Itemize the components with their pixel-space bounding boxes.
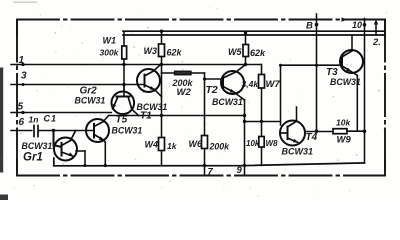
transistor T2 — [221, 71, 244, 94]
svg-text:W3: W3 — [144, 46, 158, 56]
wire supply rail upper — [123, 30, 384, 32]
svg-text:1k: 1k — [167, 141, 178, 151]
svg-text:5: 5 — [18, 102, 24, 113]
frame (dash-dot IC boundary) — [17, 20, 385, 176]
svg-text:BCW31: BCW31 — [75, 96, 106, 106]
svg-text:10k: 10k — [246, 139, 260, 148]
frame top arrow — [342, 17, 348, 21]
wire T3 emitter drop — [351, 72, 357, 132]
resistor W9 (horizontal) — [333, 129, 347, 134]
wire T5 emitter to ground rail — [104, 140, 107, 167]
wire W2 right lead — [191, 72, 205, 74]
wire feedback node horizontal (to T4 base) — [245, 121, 281, 123]
transistor Gr2 — [112, 85, 135, 115]
svg-text:10k: 10k — [336, 118, 351, 128]
svg-text:200k: 200k — [209, 142, 231, 152]
wire node B column — [315, 14, 319, 133]
resistor W2 (horizontal, dark) — [175, 71, 192, 75]
wire T2 emitter column (pin 9) — [235, 93, 247, 176]
svg-text:T1: T1 — [140, 111, 152, 122]
pin 2 supply stub with arrow — [374, 19, 378, 35]
wire Gr1 emitter to ground rail — [76, 151, 87, 167]
wire node 1 (pin1 line) — [11, 63, 262, 66]
wire Gr2 collector to mid node — [132, 109, 139, 115]
wire W2 left lead — [162, 72, 175, 74]
wire mid node horizontal — [109, 114, 247, 117]
svg-text:300k: 300k — [100, 48, 120, 58]
resistor W4 — [159, 138, 165, 151]
transistor T3 — [340, 50, 363, 73]
wire T5 collector to mid node — [103, 116, 108, 122]
svg-text:T4: T4 — [306, 132, 318, 143]
wire T3 base riser — [279, 64, 282, 125]
wire supply rail lower — [123, 34, 384, 36]
svg-text:BCW31I: BCW31I — [22, 141, 56, 151]
capacitor C1 — [34, 126, 38, 137]
resistor W5 — [243, 45, 249, 57]
wire node 5 (pin5 line to Gr2 emitter) — [11, 111, 111, 114]
svg-text:10: 10 — [352, 20, 362, 30]
svg-text:3: 3 — [21, 71, 27, 82]
svg-text:W7: W7 — [266, 79, 281, 90]
wire ground rail (pins 7,9) — [54, 158, 365, 166]
transistor T1 — [137, 69, 160, 92]
wire T1 collector link — [154, 65, 161, 71]
svg-text:W8: W8 — [266, 139, 279, 148]
wire node 3 (pin3 line to T1 base) — [11, 83, 145, 86]
wire T3 collector to rail — [351, 35, 353, 51]
svg-text:62k: 62k — [167, 48, 183, 58]
svg-text:2.: 2. — [372, 37, 381, 48]
svg-text:1n: 1n — [29, 115, 39, 125]
svg-text:BCW31: BCW31 — [212, 97, 243, 107]
wire W6 column (W2 to ground, pin 7) — [203, 73, 206, 175]
resistor W3 — [159, 44, 165, 57]
svg-text:62k: 62k — [250, 48, 266, 58]
svg-text:B: B — [306, 21, 313, 32]
svg-text:6: 6 — [19, 117, 25, 128]
svg-text:Gr1: Gr1 — [23, 152, 43, 164]
svg-text:3,4k: 3,4k — [242, 79, 260, 89]
wire T4 collector stub — [296, 107, 298, 121]
wire W1 column (rail to Gr2 collector) — [122, 31, 125, 91]
svg-text:BCW31: BCW31 — [112, 126, 143, 136]
resistor W1 — [122, 46, 127, 59]
wire T3 base horizontal — [281, 64, 343, 67]
svg-text:T2: T2 — [206, 84, 218, 96]
transistor Gr1 — [54, 131, 78, 161]
svg-text:W4: W4 — [145, 140, 159, 150]
svg-text:W9: W9 — [337, 135, 352, 146]
transistor T5 — [86, 119, 109, 142]
resistor W7 — [259, 75, 265, 89]
wire W5 column — [244, 31, 247, 66]
svg-text:7: 7 — [208, 167, 214, 178]
svg-text:W2: W2 — [177, 87, 192, 98]
wire C1 to T5 base — [38, 129, 94, 132]
svg-text:9: 9 — [237, 165, 243, 176]
wire T1 emitter link — [155, 90, 162, 97]
wire node 6 (pin6 line to C1) — [11, 130, 32, 132]
wire W9 right lead — [347, 129, 366, 133]
frame corner reinforcements — [17, 20, 385, 176]
transistor T4 — [280, 121, 305, 146]
svg-text:W1: W1 — [103, 36, 117, 46]
wire T4 output to W9 — [305, 131, 333, 133]
svg-text:W6: W6 — [189, 139, 203, 149]
svg-text:C1: C1 — [44, 114, 58, 124]
wire T2 base — [205, 78, 224, 80]
wire W7-W8 column — [260, 65, 263, 166]
wire pin 10 column — [363, 19, 367, 164]
svg-text:BCW31: BCW31 — [330, 77, 361, 87]
wire W3-W4 column — [160, 30, 163, 166]
resistor W8 — [259, 137, 264, 148]
svg-text:BCW31: BCW31 — [282, 147, 314, 157]
wire T2 collector link — [237, 65, 246, 72]
resistor W6 — [202, 136, 208, 149]
svg-text:W5: W5 — [228, 47, 242, 57]
